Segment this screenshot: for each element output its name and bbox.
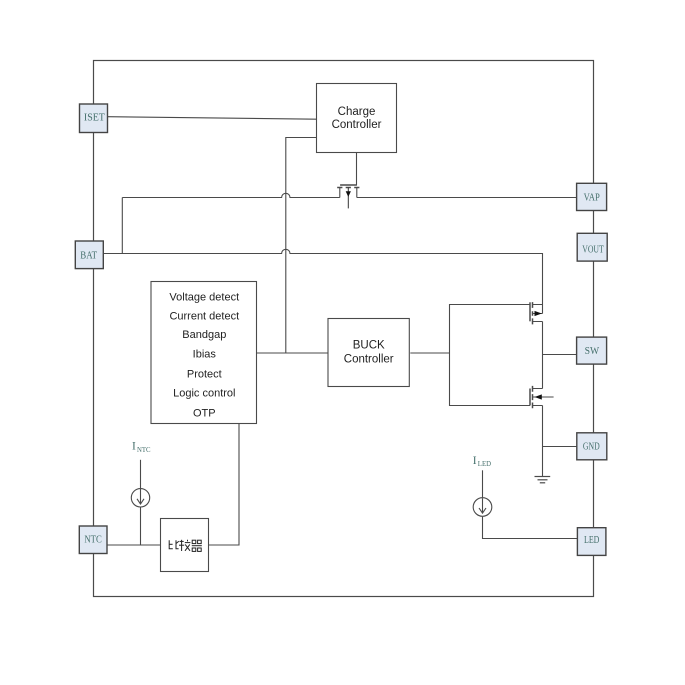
svg-text:Charge: Charge	[338, 106, 376, 118]
wire SW node vertical between FETs	[542, 322, 544, 389]
wire BAT bus with hop, corner down to high-side FET source	[103, 249, 542, 304]
label 比较器 glyph 器	[192, 540, 202, 551]
label I_NTC	[132, 441, 151, 454]
block U2 analog core	[151, 282, 257, 424]
wire comparator to voltage-detect block	[209, 423, 240, 545]
svg-text:VOUT: VOUT	[582, 243, 604, 255]
svg-text:Protect: Protect	[187, 368, 222, 380]
pin LED	[577, 528, 606, 556]
pin BAT	[75, 241, 103, 269]
transistor Q1 charge PMOS	[337, 185, 359, 208]
block U3 BUCK Controller	[328, 319, 409, 387]
pin VOUT	[577, 233, 607, 261]
svg-text:SW: SW	[585, 345, 600, 357]
wire Voltage-detect block to BUCK Controller	[257, 352, 329, 354]
svg-text:I: I	[132, 441, 136, 453]
wire GND line to pin	[543, 446, 577, 448]
transistor Q2 high-side FET	[530, 302, 543, 324]
label 比较器 glyph 较	[179, 540, 190, 551]
label I_LED	[473, 455, 491, 468]
ground	[535, 477, 551, 483]
comparator block	[161, 519, 209, 572]
wire low-side source down to ground	[542, 406, 544, 477]
wire NTC pin to comparator	[107, 544, 161, 546]
svg-text:Current detect: Current detect	[169, 311, 239, 323]
svg-text:Controller: Controller	[344, 353, 394, 365]
wire ISET to Charge Controller	[108, 117, 317, 120]
svg-text:NTC: NTC	[137, 447, 151, 454]
pin SW	[577, 337, 607, 364]
svg-text:Bandgap: Bandgap	[182, 329, 226, 341]
chip boundary border	[94, 61, 594, 597]
svg-text:LED: LED	[478, 461, 491, 468]
label 比较器 glyph 比	[169, 540, 179, 549]
svg-text:Controller: Controller	[332, 119, 382, 131]
wire BUCK Controller to driver box	[410, 352, 449, 354]
wire VAP line left segment with hop	[122, 193, 339, 197]
block U1 Charge Controller	[317, 84, 397, 153]
wire SW line to pin	[543, 354, 577, 356]
pin ISET	[80, 104, 108, 133]
wire Charge Controller gate feed	[356, 153, 358, 186]
driver box open rectangle	[450, 305, 531, 406]
current source I_NTC	[131, 460, 149, 545]
svg-text:GND: GND	[583, 440, 600, 452]
svg-text:OTP: OTP	[193, 407, 216, 419]
pin NTC	[79, 526, 107, 554]
svg-text:NTC: NTC	[84, 534, 101, 546]
svg-text:I: I	[473, 455, 477, 467]
pin VAP	[577, 183, 607, 210]
pin GND	[577, 433, 607, 460]
svg-text:BAT: BAT	[80, 250, 97, 262]
svg-text:Voltage detect: Voltage detect	[169, 292, 239, 304]
wire VAP line right segment	[357, 197, 577, 199]
svg-text:LED: LED	[584, 534, 599, 546]
wire Charge Controller left stub and vertical bus down to BUCK wire	[286, 138, 317, 354]
wire BAT riser to VAP line	[121, 198, 123, 254]
svg-text:Ibias: Ibias	[193, 349, 217, 361]
transistor Q3 low-side FET	[530, 386, 554, 408]
svg-text:Logic control: Logic control	[173, 388, 235, 400]
current source I_LED	[473, 470, 577, 538]
svg-text:VAP: VAP	[584, 191, 600, 203]
svg-text:ISET: ISET	[84, 112, 105, 124]
svg-text:BUCK: BUCK	[353, 340, 385, 352]
